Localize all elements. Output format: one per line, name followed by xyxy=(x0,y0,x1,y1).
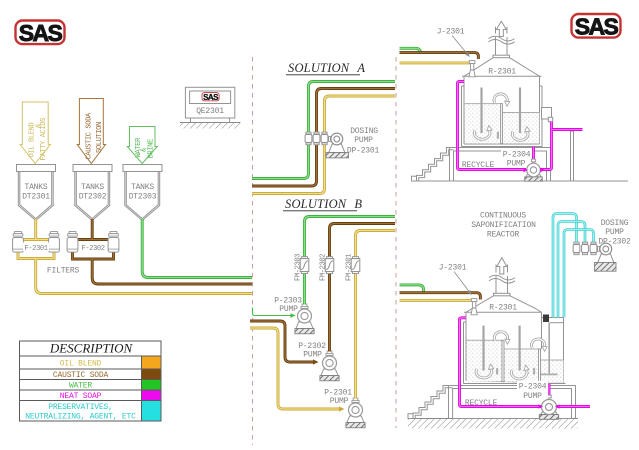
liquid compartment 3 xyxy=(541,360,564,383)
pipe yellow: filters F-2301 collector down to match line xyxy=(18,253,252,294)
svg-text:PUMP: PUMP xyxy=(523,392,542,401)
tank DT2301 xyxy=(17,165,56,221)
svg-text:SAPONIFICATION: SAPONIFICATION xyxy=(471,221,536,230)
pipe green: solution A riser xyxy=(252,82,395,179)
dosing pump DP-2301 xyxy=(329,133,345,152)
stir arrow bottom right xyxy=(512,127,530,141)
svg-text:DOSING: DOSING xyxy=(350,127,378,136)
pipe yellow: feed to reactor 2 xyxy=(400,299,472,302)
dosing valve 1 xyxy=(573,242,580,255)
stir arrow middle right xyxy=(532,339,548,351)
cover and step to side compartment xyxy=(464,312,564,317)
legend table frame xyxy=(20,341,162,421)
connector to dosing pump DP-2302 xyxy=(597,248,600,250)
svg-text:NEUTRALIZING, AGENT, ETC: NEUTRALIZING, AGENT, ETC xyxy=(25,413,136,422)
nozzle J-2301 (reactor 1) xyxy=(469,61,475,77)
svg-text:FM-2301: FM-2301 xyxy=(346,254,354,281)
pipe magenta: product line xyxy=(552,128,583,131)
svg-text:PUMP: PUMP xyxy=(507,160,526,169)
pump P-2304 (reactor 2) xyxy=(539,395,558,419)
ground line under reactor R-2301 xyxy=(411,180,628,182)
svg-text:DT2302: DT2302 xyxy=(79,193,107,202)
stir arrow top left xyxy=(494,332,510,344)
svg-text:DP-2301: DP-2301 xyxy=(347,147,380,156)
pipe brown: feed to reactor 1 xyxy=(400,53,479,59)
hatched base of DP-2301 xyxy=(326,153,349,158)
pipe green: feed to reactor 1 xyxy=(400,48,421,53)
baffle divider 2 xyxy=(539,349,541,382)
hatched base of DP-2302 xyxy=(595,262,617,271)
label P-2304 PUMP (reactor 2) xyxy=(517,381,548,399)
svg-text:OIL BLEND: OIL BLEND xyxy=(60,360,102,369)
svg-text:SOLUTION: SOLUTION xyxy=(96,122,104,153)
liquid compartment 1 xyxy=(467,340,503,381)
legend swatch oil blend xyxy=(142,356,162,369)
stir arrow bottom left xyxy=(474,126,492,140)
roof slopes xyxy=(464,58,540,77)
right compartment wall xyxy=(563,318,565,384)
vent up arrow xyxy=(497,258,507,274)
dosing valve on green riser xyxy=(305,132,312,145)
filter F-2302 canister left xyxy=(67,232,78,253)
platform under reactor 1 xyxy=(450,148,551,182)
outlet box right xyxy=(542,108,552,120)
pipe magenta: recycle loop reactor 1 xyxy=(458,82,527,170)
pipe green: tank DT2303 down to match line xyxy=(142,219,252,278)
banner arrow WATER & BRINE xyxy=(127,127,157,164)
SAS logo top-right xyxy=(572,14,621,40)
pipe magenta: suction from vessel bottom xyxy=(532,147,535,163)
pipe magenta: product line reactor 2 xyxy=(556,405,590,408)
vent chimney xyxy=(496,265,508,294)
svg-text:DP-2302: DP-2302 xyxy=(598,238,631,247)
bottoms xyxy=(462,144,543,147)
dosing valve on brown riser xyxy=(313,132,320,145)
liquid right compartment xyxy=(502,113,539,144)
svg-text:PUMP: PUMP xyxy=(605,228,624,237)
roof slopes xyxy=(466,296,542,313)
chimney break wavy xyxy=(489,36,515,41)
svg-text:DT2303: DT2303 xyxy=(129,193,157,202)
pipe brown: feed to reactor 2 xyxy=(400,293,481,300)
svg-text:WATER: WATER xyxy=(135,137,143,157)
filter F-2301 canister right xyxy=(49,232,60,253)
svg-text:DESCRIPTION: DESCRIPTION xyxy=(49,341,134,356)
pipe green: P-2303 discharge through FM-2303 xyxy=(305,217,396,305)
pipe yellow: tank DT2301 to filters F-2301 xyxy=(13,219,59,253)
svg-text:RECYCLE: RECYCLE xyxy=(465,399,498,408)
staircase left of reactor 1 xyxy=(412,148,454,182)
svg-text:PUMP: PUMP xyxy=(330,397,349,406)
bottoms xyxy=(464,381,566,384)
staircase left of reactor 2 xyxy=(408,386,453,419)
pump P-2304 (reactor 1) xyxy=(525,159,543,181)
label F-2301 xyxy=(23,243,49,252)
compartment lid line xyxy=(550,322,564,324)
pipe brown: filters F-2302 collector down to match line xyxy=(73,253,253,285)
svg-text:R-2301: R-2301 xyxy=(489,304,517,313)
top flange xyxy=(494,293,511,296)
flow meter FM-2303 xyxy=(300,257,309,274)
baffle divider xyxy=(501,104,503,144)
banner arrow CAUSTIC SODA SOLUTION xyxy=(77,99,105,164)
svg-text:PUMP: PUMP xyxy=(303,351,322,360)
match line right xyxy=(395,57,397,428)
agitator shaft left xyxy=(482,326,484,371)
svg-text:TANKS: TANKS xyxy=(131,183,154,192)
reactor R-2301 vessel (lower) xyxy=(464,258,566,384)
svg-text:FILTERS: FILTERS xyxy=(47,267,80,276)
svg-text:DOSING: DOSING xyxy=(601,219,629,228)
agitator shaft middle xyxy=(518,326,520,371)
svg-text:BRINE: BRINE xyxy=(148,139,156,158)
pipe support column right of reactor 1 xyxy=(571,131,574,181)
stir arrow bottom left xyxy=(476,364,494,378)
liquid left compartment xyxy=(465,104,501,144)
level capsule 1 xyxy=(496,368,498,375)
control panel QE2301 xyxy=(180,87,240,128)
svg-text:R-2301: R-2301 xyxy=(488,68,516,77)
pipe cyan middle xyxy=(558,222,585,318)
legend swatch preservatives xyxy=(142,401,162,422)
pump P-2301 xyxy=(346,398,365,428)
svg-text:FM-2303: FM-2303 xyxy=(295,254,303,281)
pipe yellow: P-2301 discharge through FM-2301 xyxy=(356,231,396,399)
dosing pump DP-2302 xyxy=(598,243,614,262)
filter F-2302 canister right xyxy=(108,232,119,253)
svg-text:NEAT SOAP: NEAT SOAP xyxy=(60,392,102,401)
vent chimney xyxy=(496,27,508,56)
label P-2304 PUMP (reactor 1) xyxy=(501,149,532,158)
svg-text:QE2301: QE2301 xyxy=(196,107,224,116)
agitator shaft left xyxy=(480,88,482,134)
pipe green thin: feed to pump P-2303 xyxy=(253,308,296,316)
baffle divider 1 xyxy=(502,340,504,382)
tank DT2303 xyxy=(123,165,162,221)
svg-text:CAUSTIC SODA: CAUSTIC SODA xyxy=(86,112,94,159)
SAS logo top-left xyxy=(16,20,65,46)
dosing valve on yellow riser xyxy=(321,132,328,145)
svg-text:CONTINUOUS: CONTINUOUS xyxy=(480,212,526,221)
pipe brown: feed to pump P-2302 xyxy=(250,321,314,362)
top flange xyxy=(493,55,510,58)
tank DT2302 xyxy=(73,165,112,221)
pipe brown: solution A riser xyxy=(252,89,395,187)
svg-text:F-2301: F-2301 xyxy=(24,245,47,253)
svg-text:J-2301: J-2301 xyxy=(439,264,467,273)
svg-text:PUMP: PUMP xyxy=(354,136,373,145)
svg-text:P-2304: P-2304 xyxy=(503,151,531,160)
banner arrow OIL BLEND / FATTY ACIDS xyxy=(20,102,50,164)
svg-text:WATER: WATER xyxy=(69,382,92,391)
svg-text:F-2302: F-2302 xyxy=(81,245,104,253)
walls xyxy=(466,312,542,380)
flow meter FM-2302 xyxy=(325,257,334,274)
pump P-2302 xyxy=(320,351,339,381)
jacket left xyxy=(464,322,467,384)
match line left xyxy=(252,57,254,445)
filter F-2301 canister left xyxy=(13,232,24,253)
liquid compartment 2 xyxy=(504,349,539,382)
svg-text:P-2304: P-2304 xyxy=(519,383,547,392)
pipe cyan outer xyxy=(553,214,577,318)
svg-text:J-2301: J-2301 xyxy=(437,28,465,37)
stir arrow bottom middle xyxy=(511,365,529,379)
pipe cyan inner xyxy=(564,230,594,318)
legend swatch caustic soda xyxy=(142,369,162,380)
connector to dosing pump DP-2301 xyxy=(328,138,331,140)
level capsule xyxy=(497,132,499,140)
pipe green: feed to reactor 2 xyxy=(400,285,424,293)
ground hatch under reactor 2 xyxy=(408,419,578,429)
svg-text:FM-2302: FM-2302 xyxy=(320,254,328,281)
dosing valve 2 xyxy=(582,242,589,255)
pipe magenta: recycle loop reactor 2 xyxy=(460,318,542,407)
pipe brown: tank DT2302 to filters F-2302 xyxy=(68,219,119,253)
pipe yellow: solution A riser xyxy=(252,96,395,194)
pipe magenta: suction reactor 2 xyxy=(548,384,551,399)
pump P-2303 xyxy=(295,304,314,334)
svg-text:REACTOR: REACTOR xyxy=(487,231,520,240)
cyan inlet block xyxy=(543,315,549,323)
nozzle J-2301 (reactor 2) xyxy=(471,299,477,315)
svg-text:TANKS: TANKS xyxy=(81,183,104,192)
label F-2302 xyxy=(80,243,106,252)
dip tube and sparger xyxy=(548,323,550,374)
reactor R-2301 vessel (upper) xyxy=(462,21,543,146)
flow meter FM-2301 xyxy=(351,257,360,274)
dosing valve 3 xyxy=(590,242,597,255)
svg-text:PUMP: PUMP xyxy=(279,305,298,314)
svg-text:PRESERVATIVES,: PRESERVATIVES, xyxy=(48,403,112,412)
svg-text:CAUSTIC SODA: CAUSTIC SODA xyxy=(53,371,109,380)
svg-text:TANKS: TANKS xyxy=(24,183,47,192)
svg-text:RECYCLE: RECYCLE xyxy=(462,161,495,170)
pipe yellow: feed to pump P-2301 xyxy=(250,328,340,409)
platform under reactor 2 xyxy=(449,386,576,419)
level capsule 2 xyxy=(533,368,535,375)
svg-text:DT2301: DT2301 xyxy=(22,193,50,202)
legend swatch neat soap xyxy=(142,390,162,401)
stir arrow top center xyxy=(494,94,510,106)
cover and walls xyxy=(462,75,542,77)
chimney break wavy xyxy=(489,275,515,280)
legend swatch water xyxy=(142,380,162,391)
pipe magenta: discharge riser to outlet box xyxy=(540,122,552,170)
pipe yellow: feed to reactor 1 xyxy=(400,61,470,64)
agitator shaft right xyxy=(519,88,521,134)
vent up arrow xyxy=(496,21,506,36)
pipe brown: P-2302 discharge through FM-2302 xyxy=(330,224,396,352)
jacket xyxy=(462,86,543,147)
